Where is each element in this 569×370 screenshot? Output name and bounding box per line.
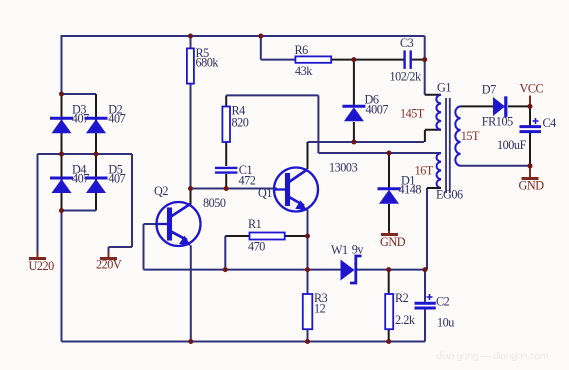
svg-text:G1: G1 — [437, 81, 451, 95]
svg-text:W1: W1 — [331, 243, 348, 257]
svg-text:16T: 16T — [415, 164, 434, 178]
svg-text:C2: C2 — [436, 295, 450, 309]
svg-text:2.2k: 2.2k — [395, 313, 416, 327]
svg-text:680k: 680k — [196, 56, 220, 70]
svg-text:12: 12 — [314, 302, 326, 316]
svg-text:407: 407 — [108, 112, 125, 126]
svg-text:4007: 4007 — [366, 103, 389, 117]
svg-text:EG06: EG06 — [436, 188, 463, 202]
svg-text:820: 820 — [232, 116, 249, 130]
svg-text:C3: C3 — [400, 36, 414, 50]
svg-text:407: 407 — [108, 172, 125, 186]
svg-text:470: 470 — [248, 240, 265, 254]
svg-text:GND: GND — [380, 235, 406, 249]
svg-text:15T: 15T — [461, 129, 480, 143]
svg-text:FR105: FR105 — [482, 115, 513, 129]
svg-text:dian gong — diangon.com: dian gong — diangon.com — [436, 350, 549, 362]
svg-text:U220: U220 — [29, 259, 55, 273]
svg-text:R2: R2 — [395, 291, 409, 305]
svg-text:Q2: Q2 — [154, 184, 168, 198]
svg-text:D7: D7 — [482, 83, 496, 97]
svg-text:43k: 43k — [295, 64, 313, 78]
svg-text:13003: 13003 — [329, 161, 358, 175]
svg-text:100uF: 100uF — [497, 138, 527, 152]
svg-text:145T: 145T — [400, 107, 425, 121]
svg-text:102/2k: 102/2k — [390, 70, 423, 84]
svg-text:Q1: Q1 — [258, 186, 272, 200]
svg-text:4148: 4148 — [399, 182, 422, 196]
svg-text:10u: 10u — [437, 316, 454, 330]
svg-text:407: 407 — [72, 172, 89, 186]
svg-text:VCC: VCC — [520, 82, 544, 96]
svg-text:GND: GND — [519, 179, 545, 193]
svg-text:R1: R1 — [248, 217, 262, 231]
svg-text:407: 407 — [72, 112, 89, 126]
svg-text:220V: 220V — [96, 258, 122, 272]
svg-text:R6: R6 — [295, 43, 309, 57]
svg-text:472: 472 — [239, 174, 256, 188]
svg-text:8050: 8050 — [203, 196, 226, 210]
svg-text:9v: 9v — [352, 243, 365, 257]
svg-text:C4: C4 — [543, 116, 557, 130]
